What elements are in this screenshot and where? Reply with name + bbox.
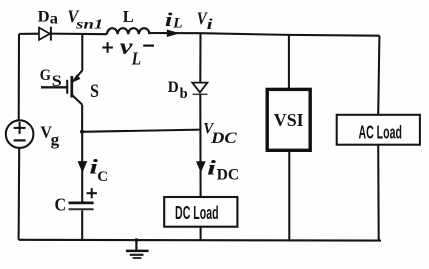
inductor L <box>107 28 149 34</box>
svg-text:i: i <box>207 155 216 179</box>
label Vg <box>40 123 59 149</box>
ground <box>126 238 149 258</box>
svg-text:sn1: sn1 <box>75 17 103 32</box>
diode Db <box>192 83 207 95</box>
wire Vsn1 drop to transistor <box>81 34 83 71</box>
node junction dot <box>80 130 84 134</box>
svg-text:S: S <box>52 73 62 90</box>
wire AC load to bottom rail <box>377 145 380 241</box>
emitter diagonal <box>72 95 82 105</box>
svg-text:b: b <box>180 86 188 102</box>
wire VSI drop <box>288 35 290 90</box>
diode Da <box>39 27 51 41</box>
svg-text:DC: DC <box>217 166 240 183</box>
VSI box U1 <box>267 89 310 150</box>
wire AC load drop <box>378 36 379 115</box>
wire left vertical (source branch) <box>18 34 20 121</box>
label + vL - (inductor voltage) <box>102 34 154 69</box>
label iDC <box>207 155 239 183</box>
svg-text:VSI: VSI <box>274 110 304 130</box>
capacitor C <box>69 203 94 209</box>
gate lead <box>41 86 67 88</box>
wire bottom rail <box>19 239 381 242</box>
label GS <box>40 67 62 90</box>
svg-text:L: L <box>172 16 183 32</box>
collector diagonal <box>72 70 83 82</box>
wire Vi drop to diode Db <box>199 33 201 82</box>
svg-text:C: C <box>55 195 67 215</box>
node Vsn1 <box>67 6 103 31</box>
current arrow iL <box>167 30 180 38</box>
svg-text:i: i <box>165 10 174 31</box>
wire top rail Da to L <box>51 33 107 36</box>
node VDC <box>203 120 237 146</box>
wire from source to bottom rail <box>18 148 21 240</box>
wire capacitor to bottom rail <box>81 210 83 240</box>
svg-text:a: a <box>50 11 58 28</box>
node Vi <box>197 9 214 33</box>
label iL <box>165 10 183 32</box>
current arrow iC <box>78 161 88 173</box>
voltage source Vg <box>6 120 34 148</box>
wire top rail left <box>19 33 40 35</box>
label Db <box>168 79 188 102</box>
collector arrow <box>72 74 81 82</box>
label Da <box>38 9 58 28</box>
body bar <box>70 76 73 98</box>
DC Load box <box>164 197 237 227</box>
svg-text:AC Load: AC Load <box>358 122 402 142</box>
wire top rail L to right <box>150 33 380 36</box>
svg-text:S: S <box>90 81 99 102</box>
svg-text:C: C <box>97 169 108 185</box>
svg-text:L: L <box>123 7 134 26</box>
svg-text:DC: DC <box>210 130 237 147</box>
svg-text:DC Load: DC Load <box>175 203 219 223</box>
gate bar <box>66 80 68 94</box>
AC Load box <box>337 115 420 145</box>
wire DC load to bottom rail <box>200 227 202 241</box>
current arrow iDC <box>196 161 206 173</box>
svg-text:L: L <box>131 48 141 68</box>
label + (capacitor polarity) <box>87 188 97 198</box>
wire capacitor branch <box>81 132 83 202</box>
svg-text:G: G <box>40 67 51 84</box>
svg-text:g: g <box>51 130 60 149</box>
wire mid rail to VDC <box>82 130 201 132</box>
label iC <box>89 155 108 186</box>
wire VSI to bottom rail <box>288 150 290 240</box>
svg-text:D: D <box>38 9 50 26</box>
wire emitter down to mid node <box>81 105 83 132</box>
transistor Q1 (IGBT S) <box>41 70 82 104</box>
wire Db to DC load <box>199 94 201 197</box>
svg-text:D: D <box>168 79 179 96</box>
